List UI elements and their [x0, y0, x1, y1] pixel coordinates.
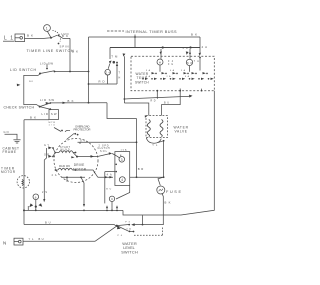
fuse [157, 186, 165, 194]
svg-text:3A: 3A [146, 69, 151, 72]
label RD [99, 79, 105, 83]
svg-text:PROTECTOR: PROTECTOR [74, 128, 91, 132]
cabinet ground [13, 140, 20, 143]
svg-text:BU: BU [106, 188, 111, 190]
terminal 4 [119, 177, 125, 183]
wire start winding to clutch [71, 153, 110, 159]
terminal C [109, 196, 114, 211]
wire terminal 24 down [88, 75, 117, 85]
timer terminal H [157, 49, 163, 65]
wire tap into box [105, 164, 117, 204]
wire L1 to timer line switch [25, 37, 45, 39]
wire motor to neutral bus [81, 177, 85, 211]
valve common U [146, 138, 164, 144]
node L1 [4, 36, 13, 42]
wire timer motor to neutral bus [23, 174, 25, 224]
label BU [164, 101, 169, 104]
label 4A [107, 174, 112, 177]
label BK [30, 115, 36, 119]
clutch riser [136, 119, 138, 178]
svg-text:1A: 1A [146, 75, 151, 78]
label TIMER MOTOR [1, 166, 16, 174]
label BK [165, 200, 171, 204]
timer terminal 60 [186, 49, 193, 66]
wire y98.6 [124, 95, 193, 100]
svg-text:MOTOR: MOTOR [1, 170, 16, 174]
buss 1 [89, 35, 201, 38]
label WATER VALVE [174, 125, 189, 133]
svg-text:SWITCH: SWITCH [135, 80, 149, 84]
svg-text:4A: 4A [126, 228, 131, 231]
svg-text:2A: 2A [167, 75, 172, 78]
svg-text:BU: BU [39, 237, 44, 241]
label INTERNAL TIMER BUSS [126, 30, 177, 34]
wire vertical x70 [69, 38, 71, 71]
wire terminal box to bottom cluster [116, 186, 130, 200]
svg-text:24: 24 [106, 70, 111, 74]
contact H2O [58, 32, 70, 37]
timer contact TM [108, 48, 115, 69]
wire pressure riser [142, 215, 144, 224]
switch arm timer line switch [44, 35, 57, 39]
svg-text:1/4: 1/4 [49, 125, 56, 127]
svg-text:LID SW: LID SW [40, 62, 53, 66]
label CABINET FRAME [3, 147, 20, 155]
label clutch solenoid [98, 144, 110, 152]
terminal 24 [105, 69, 111, 75]
label YL [29, 237, 35, 241]
label F4 FG [168, 61, 174, 66]
label P4 [118, 235, 123, 237]
label BU [106, 188, 111, 190]
label T [119, 72, 121, 80]
overload protector [54, 128, 79, 140]
terminal 3 [109, 152, 125, 162]
svg-text:TM: TM [111, 55, 118, 59]
wire lid switch to vertical buss [55, 71, 89, 73]
connector plug at L1 [15, 34, 25, 42]
terminal 1 timer line switch [44, 25, 51, 38]
label 4A [183, 47, 188, 50]
label terminal block [49, 122, 56, 127]
svg-text:F4: F4 [168, 61, 174, 63]
svg-text:YL: YL [29, 237, 35, 241]
svg-text:SOL: SOL [100, 150, 108, 153]
label 4A [126, 228, 131, 231]
label FUSE [166, 190, 181, 194]
label 4A [52, 174, 57, 177]
label start winding [60, 146, 71, 152]
svg-text:3: 3 [121, 158, 123, 162]
svg-text:TIMER LINE SWITCH: TIMER LINE SWITCH [27, 49, 74, 53]
svg-text:7A: 7A [194, 60, 199, 63]
label BK [72, 50, 78, 54]
label RD [151, 100, 156, 103]
label BU [45, 221, 51, 225]
label GY [44, 144, 49, 147]
terminal C contacts [106, 205, 118, 211]
label BK [68, 99, 74, 103]
wire motor left down [43, 148, 46, 202]
motor left contacts [48, 146, 55, 157]
ground wire [5, 134, 18, 139]
svg-text:L1: L1 [4, 36, 13, 42]
svg-text:4A: 4A [202, 45, 208, 49]
svg-text:INTERNAL TIMER BUSS: INTERNAL TIMER BUSS [126, 30, 177, 34]
label GY [80, 139, 85, 142]
svg-text:6A: 6A [185, 75, 190, 78]
connector plug at N [14, 238, 23, 245]
svg-text:P3: P3 [125, 222, 130, 224]
svg-text:5A: 5A [181, 69, 186, 72]
water temp contacts row 2 [142, 78, 214, 80]
valve coil 2 [160, 120, 163, 137]
motor internal bar [62, 176, 85, 181]
wire terminal 4 to fuse junction [130, 176, 165, 178]
wire valve to fuse [158, 141, 164, 186]
svg-text:N: N [3, 240, 6, 245]
start winding coil [55, 151, 76, 154]
internal timer buss leader [107, 30, 124, 32]
water level switch [116, 224, 131, 233]
buss 2 [110, 46, 200, 48]
contact SPIN [58, 43, 69, 49]
neutral feed wire [23, 226, 117, 241]
svg-text:H: H [119, 77, 121, 80]
svg-text:WIND: WIND [61, 149, 70, 151]
wire centrifugal to clutch riser [78, 142, 137, 144]
svg-text:RD: RD [151, 100, 156, 103]
wire x107 down and right [107, 103, 137, 119]
svg-text:BK: BK [72, 50, 78, 54]
wire switch output [59, 36, 71, 39]
svg-text:YL: YL [152, 144, 158, 147]
buss1 to buss2 link [134, 37, 136, 48]
label BR [138, 167, 144, 171]
svg-text:6: 6 [35, 195, 37, 199]
wire check switch to x107 [50, 102, 107, 104]
svg-text:FG: FG [168, 64, 173, 66]
svg-text:BK: BK [27, 34, 33, 38]
wire wt box bottom to coil1 [156, 90, 158, 99]
svg-text:10A: 10A [121, 148, 128, 151]
svg-text:T: T [119, 72, 121, 75]
label main winding [59, 165, 70, 168]
wire pressure contact lower [130, 231, 135, 233]
neutral bus [24, 209, 123, 211]
wire main winding to terminal 4 [76, 170, 114, 178]
svg-text:FRAME: FRAME [3, 150, 17, 154]
timer motor [17, 176, 29, 188]
wire temp switch drops [160, 65, 190, 72]
buss vertical left [88, 37, 90, 103]
label P3 [125, 222, 130, 224]
svg-text:MTR: MTR [49, 122, 56, 124]
svg-text:4: 4 [121, 178, 123, 182]
svg-text:BK: BK [68, 99, 74, 103]
label TM [111, 55, 118, 59]
lid switch [39, 64, 55, 75]
svg-text:H: H [159, 60, 161, 64]
neutral lower wire [24, 225, 121, 230]
dashed leader to label [134, 228, 163, 236]
svg-text:LID SW: LID SW [40, 98, 54, 102]
svg-text:BK: BK [30, 115, 36, 119]
label BU [39, 237, 44, 241]
node N [3, 240, 6, 245]
svg-text:BU: BU [164, 101, 169, 104]
svg-text:FUSE: FUSE [166, 190, 181, 194]
timer drop x124 [123, 53, 126, 103]
label 7A [194, 60, 199, 63]
wire fuse to water level switch [131, 193, 163, 226]
label DRIVE MOTOR [73, 163, 87, 172]
svg-text:BR: BR [138, 167, 144, 171]
water temp switch box [131, 56, 214, 90]
wire lid switch common down [24, 74, 40, 107]
svg-text:4A: 4A [170, 69, 175, 72]
motor terminal block [49, 110, 59, 120]
svg-text:GY: GY [44, 144, 49, 147]
svg-text:P4: P4 [118, 235, 123, 237]
label 2S [42, 191, 47, 194]
svg-text:GY: GY [80, 139, 85, 142]
dashed cam arc [53, 31, 61, 42]
label LID SWITCH [10, 68, 36, 72]
label GN [4, 130, 9, 134]
drive motor dashed circle [54, 139, 98, 183]
svg-text:60: 60 [187, 61, 192, 65]
valve coil 1 [147, 120, 150, 137]
check switch [39, 102, 51, 110]
box bottom tick [201, 89, 203, 92]
svg-text:4A: 4A [183, 47, 188, 50]
water valve box [146, 116, 168, 138]
label 4A [202, 45, 208, 49]
svg-text:CHECK SWITCH: CHECK SWITCH [4, 105, 35, 109]
label BK [27, 34, 33, 38]
label TIMER LINE SWITCH [27, 49, 74, 53]
label BK [191, 32, 197, 36]
svg-text:BK: BK [165, 200, 171, 204]
label LID SW [40, 98, 54, 102]
svg-text:NO: NO [29, 81, 33, 83]
label arrow on lid common drop [17, 84, 21, 87]
main winding coil [55, 168, 77, 171]
svg-text:LID SWITCH: LID SWITCH [10, 68, 36, 72]
wire coil1 feed [124, 103, 148, 116]
svg-text:VALVE: VALVE [175, 130, 188, 134]
water temp row labels [146, 69, 190, 78]
svg-text:BU: BU [45, 221, 51, 225]
label NO [29, 81, 33, 83]
svg-text:4A: 4A [52, 174, 57, 177]
water temp contacts row 1 [152, 72, 208, 74]
buss1 right drop [199, 37, 201, 71]
svg-text:GN: GN [4, 130, 9, 134]
terminal 6 [33, 194, 39, 211]
terminal 6 contacts [28, 203, 42, 210]
label CHECK SWITCH [4, 105, 35, 109]
right edge wire [123, 91, 214, 215]
label YL [152, 144, 158, 147]
label OVERLOAD PROTECTOR [74, 125, 91, 132]
svg-text:4A: 4A [107, 174, 112, 177]
label LID SW [42, 112, 57, 116]
svg-text:2S: 2S [42, 191, 47, 194]
label BK [62, 34, 68, 38]
label LID SW [40, 62, 53, 66]
valve corner tick [145, 115, 147, 118]
label 10A [121, 148, 128, 151]
terminal box 3-4 [115, 152, 130, 186]
wire L1 underline [3, 40, 14, 42]
svg-text:DRIVE: DRIVE [74, 163, 85, 167]
label WATER LEVEL SWITCH [121, 242, 138, 255]
svg-text:MAIN WD: MAIN WD [59, 165, 70, 168]
label WATER TEMP SWITCH [135, 72, 149, 84]
wire neutral riser to motor block [24, 120, 49, 175]
svg-text:BK: BK [191, 32, 197, 36]
wire coil2 feed [162, 89, 182, 116]
svg-text:RD: RD [99, 79, 105, 83]
svg-text:SWITCH: SWITCH [121, 251, 138, 255]
svg-text:1: 1 [46, 27, 48, 31]
label OR [44, 153, 49, 156]
timer contact riser x117 [116, 62, 118, 84]
